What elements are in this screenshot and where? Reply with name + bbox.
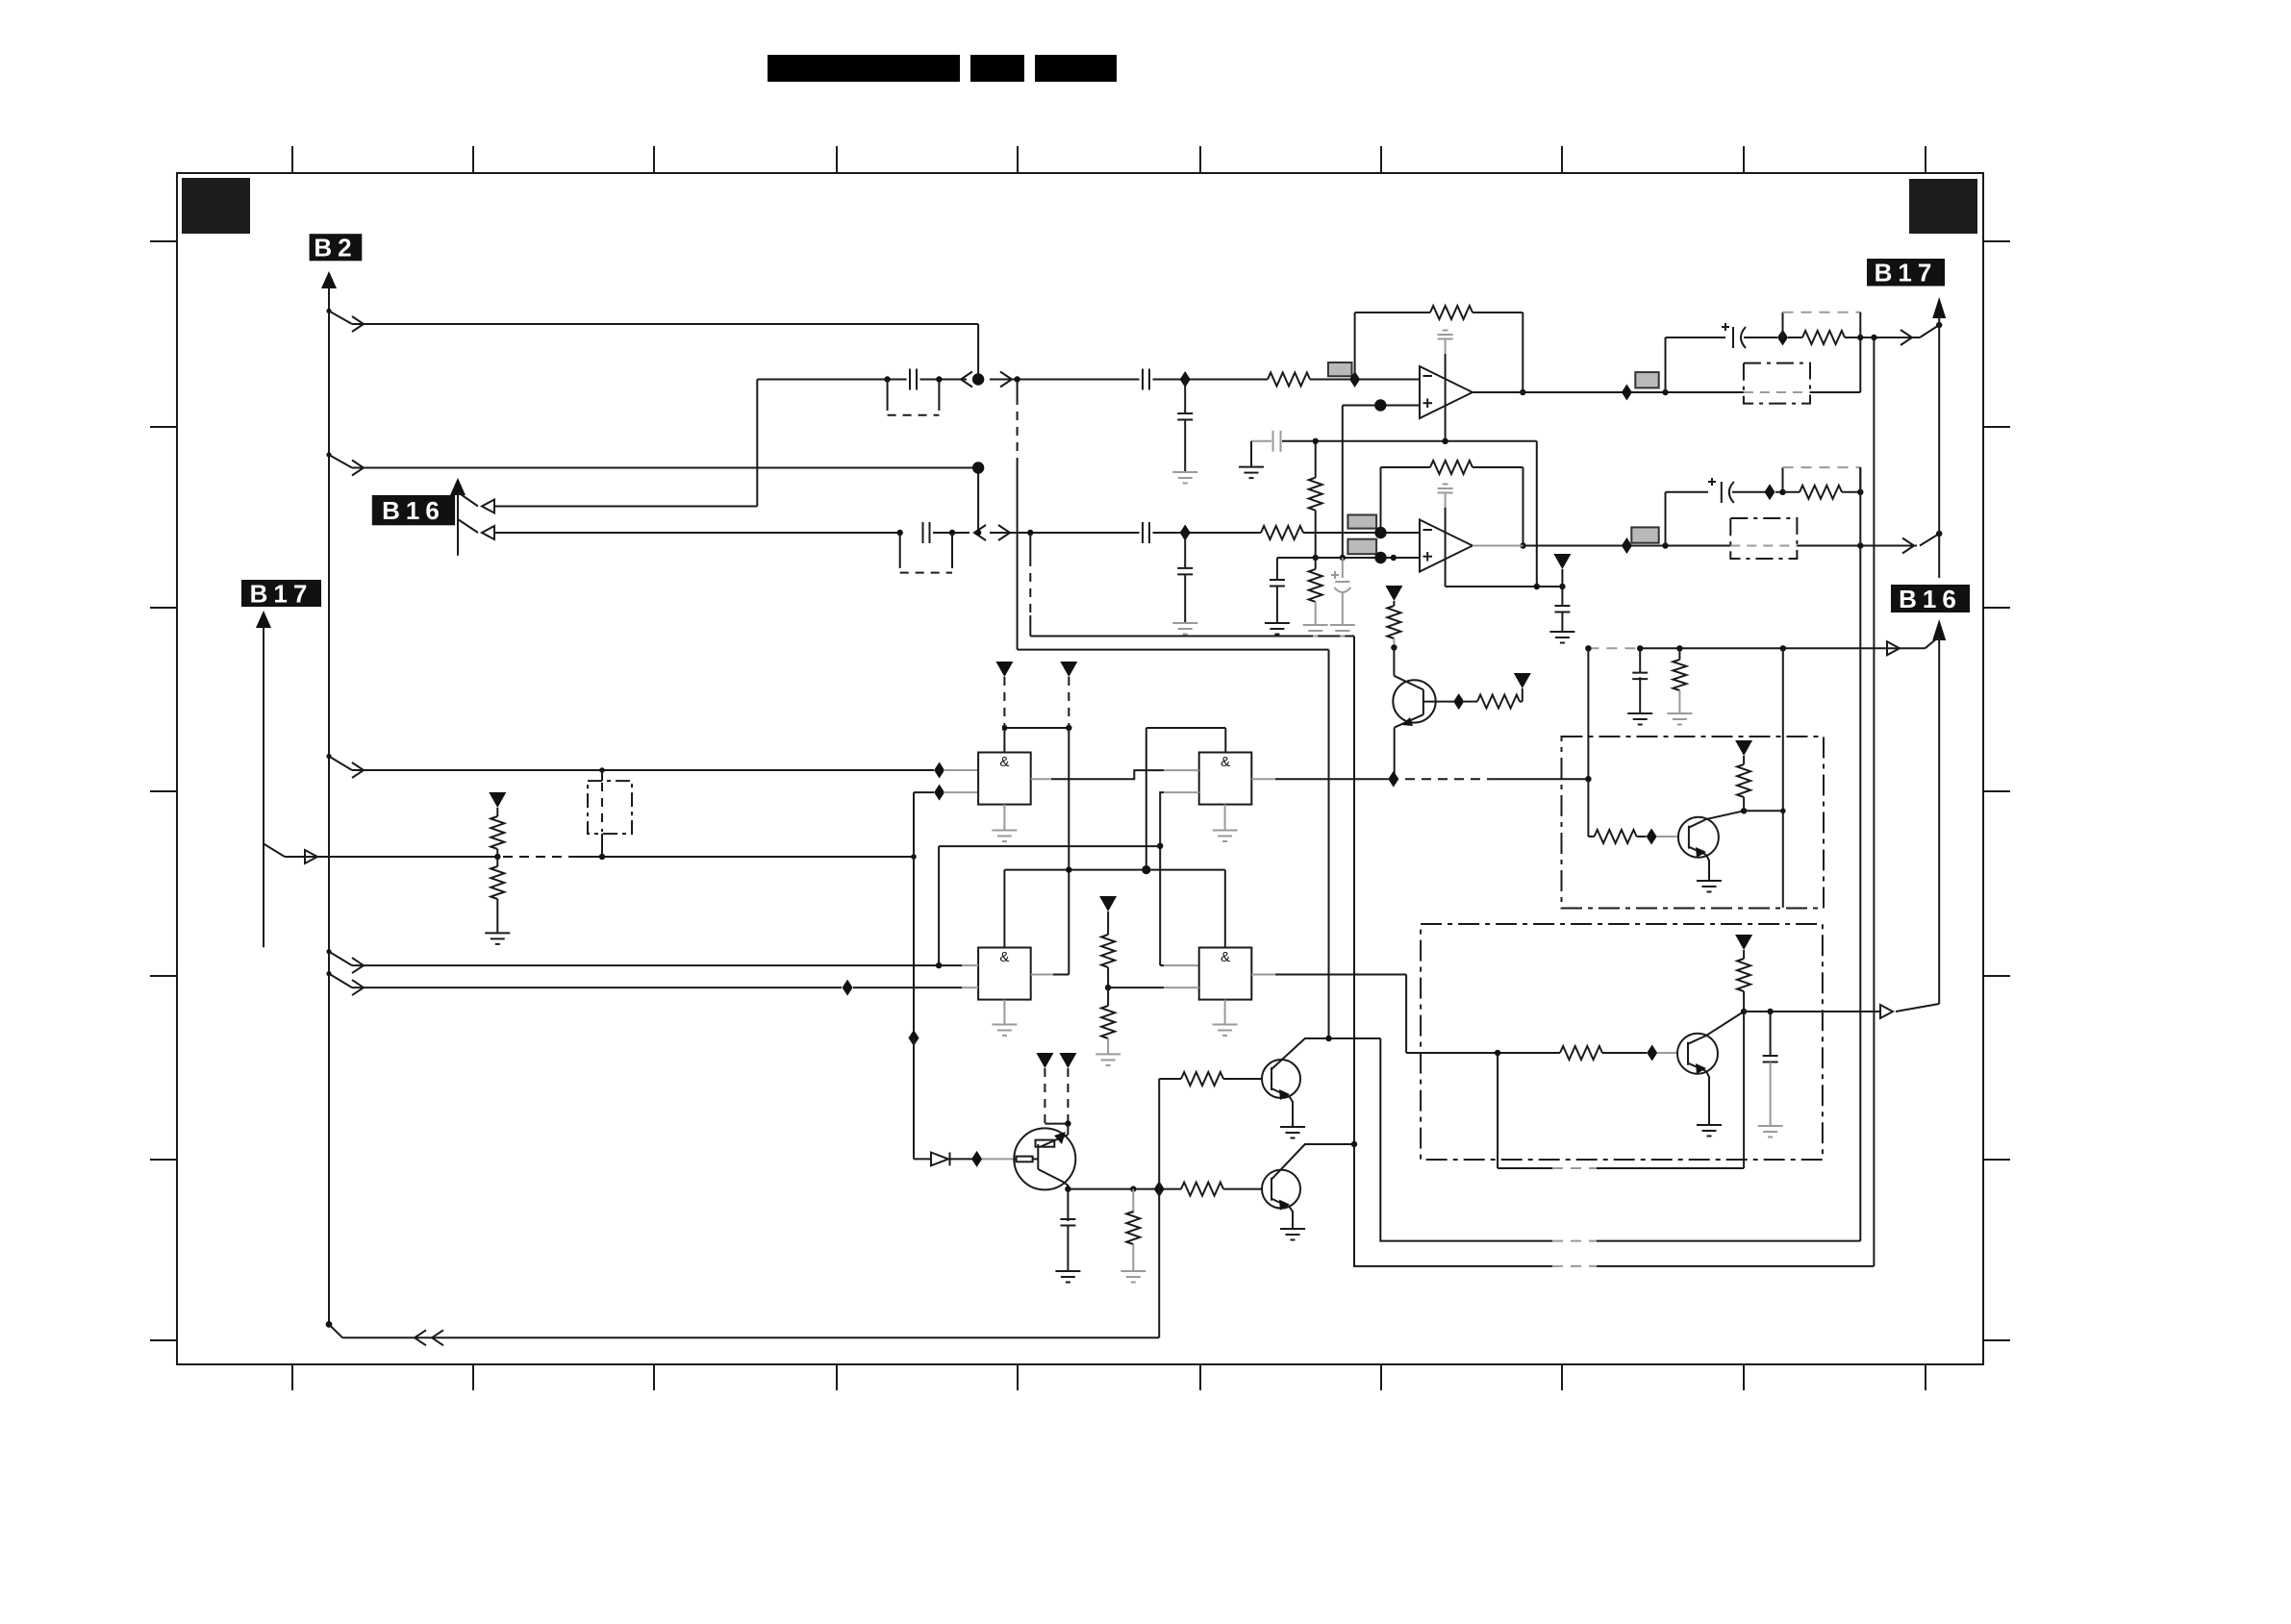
wire out2 a xyxy=(1473,545,1730,547)
ground C13 xyxy=(1627,713,1652,725)
net label B2 xyxy=(310,234,363,262)
wire B17-left wire b xyxy=(577,854,917,860)
transistor Q6 xyxy=(1262,1170,1300,1209)
wire chain2 tap vertical xyxy=(1029,533,1031,637)
node dot out1 tap xyxy=(1662,389,1668,395)
resistor R3 feedback U1 xyxy=(1430,306,1473,319)
wire Q3 fb dashes xyxy=(1552,1167,1597,1169)
capacitor C1 bypass dashed xyxy=(888,380,940,415)
capacitor C4 series xyxy=(923,522,930,543)
wire supply col xyxy=(1561,569,1563,606)
wire Q3 base row a xyxy=(1406,1050,1560,1056)
wire B2 branch 1 xyxy=(352,324,978,380)
wire chain1 e xyxy=(1310,379,1420,381)
component dash-dot box M2 xyxy=(1730,518,1797,559)
capacitor C2 series xyxy=(1143,369,1149,390)
wire stub from dashed box xyxy=(601,834,603,857)
wire Q1 base c xyxy=(1520,688,1523,702)
svg-text:B16: B16 xyxy=(382,496,445,525)
capacitor C4 bypass dashed xyxy=(900,533,952,573)
wire Q5 emitter xyxy=(1271,1088,1293,1127)
wire Q3 base stub xyxy=(1657,1052,1677,1054)
node dot Q1 col xyxy=(1391,644,1397,650)
svg-text:B16: B16 xyxy=(1899,585,1962,613)
wire B2 branch 4 to gate C xyxy=(352,964,962,966)
resistor R5 divider upper xyxy=(1309,441,1322,558)
wire RC1 a xyxy=(1788,337,1802,338)
wire Q4 emitter row xyxy=(1068,1186,1181,1191)
wire out2 kink to B17 bus xyxy=(1920,531,1942,546)
ground C15 xyxy=(1758,1126,1783,1137)
net label B16 left xyxy=(372,495,455,525)
resistor R8 RC2 xyxy=(1800,486,1842,499)
wire Q2 base feed xyxy=(1588,779,1594,837)
wire Q4 collector node xyxy=(1045,1120,1070,1135)
wire rail-763 A xyxy=(1002,725,1072,731)
node dot Q2 collector xyxy=(1741,808,1747,813)
node diamond Q5Q6 node xyxy=(1154,1181,1165,1197)
gate C ground xyxy=(992,1000,1017,1036)
ground R6 xyxy=(1303,625,1328,637)
wire U1 plus drop xyxy=(1342,406,1344,559)
wire B16 wire1 xyxy=(494,506,757,508)
top ruler ticks xyxy=(292,146,1926,173)
wire Q3 collector xyxy=(1688,1012,1744,1044)
wire Q6 emitter xyxy=(1271,1199,1293,1229)
component dashed bypass RC1 xyxy=(1783,312,1861,337)
capacitor C10 shunt xyxy=(1554,606,1570,632)
gate B top pin xyxy=(1224,728,1226,753)
wire B2 branch 5 to gate C xyxy=(352,987,842,988)
wire rail-763 B xyxy=(1142,728,1225,874)
node dot out2 tap xyxy=(1662,542,1668,548)
wire wire5 cont xyxy=(853,987,962,988)
gate D ground xyxy=(1213,1000,1238,1036)
op-amp U1 xyxy=(1420,366,1473,418)
title bar block 1 xyxy=(768,55,960,82)
wire rail-904 to gate C xyxy=(1003,870,1005,948)
wire B17-right bus xyxy=(1938,316,1940,578)
wire U1 plus row xyxy=(1343,399,1420,411)
node dot chain2 a xyxy=(897,530,903,536)
wire Q3 base b xyxy=(1602,1052,1647,1054)
node diamond gate A in2 xyxy=(934,785,944,801)
wire Q5 base b xyxy=(1223,1078,1262,1080)
power arrow divider xyxy=(1099,896,1117,912)
capacitor C15 shunt xyxy=(1763,1012,1778,1126)
wire line2 drop xyxy=(1353,637,1355,1145)
wire RC1 b xyxy=(1845,330,1920,345)
wire B2 branch 3 kink xyxy=(326,754,364,778)
resistor R16 Q5 base xyxy=(1181,1072,1223,1086)
wire B17net drop b xyxy=(914,1038,931,1160)
power arrow dashed Q4-1 xyxy=(1036,1053,1053,1124)
wire riser to chain1 xyxy=(756,380,758,507)
wire RC2 riser xyxy=(1666,492,1709,546)
svg-text:&: & xyxy=(999,754,1009,770)
ground C6 xyxy=(1172,623,1197,635)
black square top-right xyxy=(1909,179,1977,234)
power arrow dashed Q4-2 xyxy=(1059,1053,1076,1124)
wire out2 inside M2 xyxy=(1730,545,1797,547)
net label B17 left xyxy=(241,579,321,608)
node diamond op1 input xyxy=(1349,371,1360,387)
wire Q5 collector xyxy=(1271,1036,1380,1069)
resistor R19 Q3 base xyxy=(1560,1046,1602,1060)
wire out1 b xyxy=(1810,337,1860,392)
wire B2 branch 3 to gate A xyxy=(352,769,934,771)
ground C8 xyxy=(1330,625,1355,637)
wire vertical V2 xyxy=(1873,337,1875,1266)
component grey box J5 xyxy=(1631,527,1658,542)
resistor R9 xyxy=(1673,648,1686,713)
wire chain1 a xyxy=(757,376,906,382)
ground rail-458 xyxy=(1239,467,1264,479)
capacitor C12 electrolytic xyxy=(1708,478,1765,503)
wire B17-left wire dashed xyxy=(503,856,577,858)
resistor R-col lower xyxy=(491,857,504,933)
wire Q1 emitter xyxy=(1395,714,1423,779)
wire gate B out xyxy=(1251,776,1591,782)
logic gate C xyxy=(978,948,1031,1000)
wire B2 bottom kink xyxy=(326,1321,343,1337)
wire Q2 emitter xyxy=(1689,847,1709,881)
ground R-col xyxy=(485,933,510,944)
capacitor C1 series xyxy=(910,369,917,390)
wire vertical V1 xyxy=(1859,467,1861,1241)
node junction wire2 dot xyxy=(972,462,984,473)
resistor R7 RC1 xyxy=(1802,331,1845,344)
svg-text:&: & xyxy=(1221,949,1230,965)
wire Q3 fb drop xyxy=(1498,1053,1552,1168)
resistor R11 Q1 base xyxy=(1477,695,1520,709)
wire net-880 xyxy=(936,846,1160,968)
node B16-right arrow xyxy=(1932,619,1946,640)
svg-text:B17: B17 xyxy=(250,579,314,608)
wire rail-904 to gate D xyxy=(1224,870,1226,948)
wire out2 b xyxy=(1797,538,1917,554)
wire Q5 route down xyxy=(1380,1038,1552,1241)
wire gate A out to gate B xyxy=(1031,770,1199,779)
wire B2 bus vertical xyxy=(328,287,330,1324)
wire chain2 e xyxy=(1303,532,1420,534)
node B16-left arrow xyxy=(450,478,466,495)
node B17-right arrow xyxy=(1932,297,1946,318)
ground Q3 emitter xyxy=(1697,1125,1722,1137)
ground C7 xyxy=(1265,623,1290,635)
ground C10 xyxy=(1549,632,1574,643)
wire rail-458 grey xyxy=(1251,440,1271,442)
wire B16 wire2 kink xyxy=(458,519,494,539)
wire line2 horizontal xyxy=(1030,636,1354,637)
wire B17-left stub xyxy=(263,626,264,947)
ground R14 xyxy=(1120,1271,1145,1283)
transistor Q1 xyxy=(1393,680,1435,722)
wire rail-458 gnd stem xyxy=(1250,441,1252,467)
ground Q2 emitter xyxy=(1697,881,1722,892)
wire line1 horizontal xyxy=(1018,649,1329,651)
wire U1 fb left xyxy=(1354,312,1356,380)
node dot U2 out xyxy=(1520,542,1525,548)
wire B2 branch 4 kink xyxy=(326,949,364,973)
component grey box J2 xyxy=(1347,515,1376,529)
svg-text:B17: B17 xyxy=(1875,259,1938,287)
component grey box J1 xyxy=(1328,362,1352,376)
capacitor C7 shunt xyxy=(1270,558,1285,623)
power arrow U2 supply xyxy=(1553,554,1571,569)
wire stub gate A in2 xyxy=(944,791,978,793)
wire Q6 route dashes xyxy=(1552,1265,1597,1267)
wire B16 wire2 (chain2 left) xyxy=(494,532,900,534)
wire Q2 collector xyxy=(1689,811,1744,827)
wire rail-610 xyxy=(1446,584,1566,589)
wire B2 branch 5 kink xyxy=(326,971,364,995)
wire Q5 route dashes xyxy=(1552,1240,1597,1242)
node diamond Q4 base xyxy=(971,1151,982,1167)
wire B17-left wire a xyxy=(285,856,497,858)
wire gate D in1 xyxy=(1160,964,1199,966)
wire B2 branch 2 xyxy=(352,468,978,534)
node diamond gate B out xyxy=(1388,771,1398,787)
resistor R17 Q2 base xyxy=(1595,830,1637,843)
bottom ruler ticks xyxy=(292,1364,1926,1390)
resistor R6 divider lower xyxy=(1309,558,1322,625)
resistor R1 chain1 xyxy=(1268,373,1310,387)
left ruler ticks xyxy=(150,241,177,1340)
wire line-674 xyxy=(1637,641,1926,655)
wire RC1 kink to B17 bus xyxy=(1920,322,1942,337)
wire out1 inside M1 xyxy=(1744,391,1810,393)
wire B17-left branch kink xyxy=(264,844,317,864)
wire Q2 base stub xyxy=(1657,836,1678,837)
wire bottom drop xyxy=(1158,1189,1160,1338)
wire line-674 kink to B16 bus xyxy=(1926,637,1940,648)
wire RC2 b xyxy=(1842,489,1864,495)
wire Q6 collector xyxy=(1271,1141,1357,1180)
wire Q1 collector xyxy=(1394,648,1423,690)
wire out1 a xyxy=(1473,391,1744,393)
capacitor C3 shunt xyxy=(1177,380,1193,473)
svg-text:&: & xyxy=(999,949,1009,965)
transistor Q5 xyxy=(1262,1060,1300,1098)
gate C in stubs xyxy=(962,965,978,987)
title bar block 2 xyxy=(970,55,1024,82)
wire B2 branch 2 kink xyxy=(326,452,364,475)
resistor R20 Q3 collector xyxy=(1737,950,1750,1012)
wire rail-458 drop xyxy=(1536,441,1538,587)
capacitor C8 electrolytic xyxy=(1331,558,1350,625)
node junction wire2-chain1 xyxy=(972,373,984,385)
wire cross-couple drop xyxy=(1068,728,1070,975)
wire Q3 emitter xyxy=(1688,1063,1709,1125)
net label B17 right xyxy=(1867,259,1945,287)
wire RC1 riser xyxy=(1666,337,1726,392)
component dashed bypass RC2 xyxy=(1783,467,1861,492)
node diamond gate A in1 xyxy=(934,762,944,779)
wire divider to gate D in2 xyxy=(1108,987,1199,988)
op-amp U2 xyxy=(1420,520,1473,572)
ground R13 xyxy=(1095,1054,1120,1065)
wire RC2 a xyxy=(1775,489,1800,495)
node B17-left arrow xyxy=(256,611,271,628)
wire line1 drop xyxy=(1328,650,1330,1038)
node dot U1 out xyxy=(1520,389,1525,395)
ground Q5 emitter xyxy=(1280,1127,1305,1138)
power arrow dashed A2 xyxy=(1060,662,1077,728)
wire U1 fb top a xyxy=(1355,312,1430,313)
node diamond wire5 xyxy=(843,980,853,996)
component dash-dot box B1 xyxy=(1562,737,1825,909)
capacitor C11 electrolytic xyxy=(1722,323,1777,348)
wire U2 fb top b xyxy=(1473,467,1523,546)
resistor R14 xyxy=(1126,1189,1140,1271)
wire drop to Q1 emitter net xyxy=(1587,648,1589,779)
svg-text:B2: B2 xyxy=(314,234,357,262)
wire Q5 base riser xyxy=(1158,1079,1160,1189)
node dot divider xyxy=(1105,985,1111,990)
gate B ground xyxy=(1213,805,1238,841)
logic gate B xyxy=(1199,753,1252,805)
node dot op2 input xyxy=(1374,527,1386,538)
capacitor C13 shunt xyxy=(1632,648,1648,713)
wire B16 wire1 kink xyxy=(458,492,494,513)
node B2 bus arrow xyxy=(321,271,337,288)
node diamond out2 xyxy=(1622,537,1632,554)
resistor R12 divider upper xyxy=(1101,912,1115,987)
op-amp U2 power pin xyxy=(1438,485,1453,587)
node diamond chain1 xyxy=(1180,371,1191,387)
wire chain1 d xyxy=(1153,379,1269,381)
node diamond Q1 base xyxy=(1453,693,1464,710)
component dash-dot box M1 xyxy=(1744,363,1810,404)
node diamond RC2 xyxy=(1765,484,1775,500)
node diamond RC1 xyxy=(1777,330,1788,346)
gate A top pin xyxy=(1003,728,1005,753)
component dashed box X1 xyxy=(588,781,632,834)
wire gate D out xyxy=(1251,975,1406,1054)
node diamond B17net xyxy=(909,1030,919,1046)
ground R9 xyxy=(1667,713,1692,725)
wire U2 fb left xyxy=(1380,467,1382,533)
wire Q1 base b xyxy=(1464,701,1477,703)
resistor R18 Q2 collector xyxy=(1737,756,1750,811)
ground Q6 emitter xyxy=(1280,1229,1305,1240)
resistor R10 Q1 collector xyxy=(1387,601,1400,648)
node diamond Q3 base xyxy=(1647,1045,1657,1062)
wire stub gate A in1 xyxy=(944,769,978,771)
wire to Q6 base xyxy=(1223,1188,1262,1190)
capacitor C6 shunt xyxy=(1177,533,1193,623)
resistor R-col upper xyxy=(491,808,504,857)
logic gate D xyxy=(1199,948,1252,1000)
wire Q2 base a xyxy=(1637,836,1647,837)
transistor Q4 xyxy=(1014,1128,1075,1189)
wire Q3 out row xyxy=(1744,1005,1893,1018)
net label B16 right xyxy=(1891,585,1970,613)
wire chain1 tap vertical xyxy=(1017,380,1019,650)
wire Q5 route b xyxy=(1597,1240,1860,1242)
wire U1 fb top b xyxy=(1473,312,1523,392)
wire riser to gate A in2 xyxy=(914,792,934,857)
power arrow Q3 supply xyxy=(1735,935,1752,950)
transistor Q3 xyxy=(1677,1034,1718,1074)
title bar block 3 xyxy=(1035,55,1117,82)
power arrow Q2 supply xyxy=(1735,740,1752,756)
right ruler ticks xyxy=(1983,241,2010,1340)
power arrow dashed A1 xyxy=(995,662,1013,728)
component grey box J3 xyxy=(1347,539,1376,555)
wire B16-left stub xyxy=(457,494,459,556)
wire line-674 dashed xyxy=(1585,645,1640,651)
wire Q5 base xyxy=(1159,1078,1181,1080)
wire Q6 route down xyxy=(1354,1144,1552,1266)
resistor R15 Q6 base xyxy=(1181,1183,1223,1196)
wire B16-right bus xyxy=(1938,638,1940,1004)
component dash-dot box B2x xyxy=(1421,924,1823,1160)
node dot Q4 emitter xyxy=(1065,1186,1070,1191)
capacitor C5 series xyxy=(1143,522,1149,543)
op-amp U1 power pin xyxy=(1438,331,1453,441)
resistor R13 divider lower xyxy=(1101,987,1115,1054)
black square top-left xyxy=(182,178,250,234)
logic gate A xyxy=(978,753,1031,805)
wire gate B in2 riser xyxy=(1157,792,1199,965)
gate A ground xyxy=(992,805,1017,841)
wire gate C out xyxy=(1031,974,1070,976)
wire Q4 base stub xyxy=(982,1158,1014,1160)
capacitor C9 series xyxy=(1273,431,1281,452)
node dot Q3 collector xyxy=(1741,1009,1747,1014)
wire B17net drop xyxy=(913,857,915,1038)
wire Q6 route b xyxy=(1597,1265,1874,1267)
wire stub to dashed box xyxy=(599,767,605,781)
wire chain2 b xyxy=(933,525,986,540)
wire Q4 emitter xyxy=(1038,1169,1068,1189)
wire Q1 base xyxy=(1423,701,1454,703)
wire Q2 collector jog xyxy=(1744,648,1786,908)
border frame xyxy=(177,173,1983,1364)
node diamond out1 xyxy=(1622,385,1632,401)
power arrow above R-col xyxy=(489,792,506,808)
node diamond chain2 xyxy=(1180,525,1191,541)
wire chain2 d xyxy=(1153,532,1262,534)
wire U2 plus row xyxy=(1277,552,1420,563)
wire chain1 c xyxy=(990,372,1140,387)
wire diode to Q4 xyxy=(950,1158,972,1160)
wire Q3 fb b xyxy=(1597,1012,1744,1168)
power arrow Q1 collector supply xyxy=(1385,586,1402,601)
wire U2 fb top a xyxy=(1381,466,1431,468)
resistor R4 feedback U2 xyxy=(1430,461,1473,474)
ground C14 xyxy=(1055,1271,1080,1283)
wire chain2 c xyxy=(975,525,1140,540)
wire B2 bottom return xyxy=(342,1330,1159,1345)
transistor Q2 xyxy=(1678,817,1719,858)
wire chain1 b xyxy=(920,372,973,387)
ground C3 xyxy=(1172,472,1197,484)
node diamond Q2 base xyxy=(1647,829,1657,845)
resistor R2 chain2 xyxy=(1261,526,1303,539)
wire rail-458 xyxy=(1282,438,1537,444)
capacitor C14 shunt xyxy=(1060,1189,1075,1271)
power arrow Q1 base supply xyxy=(1514,673,1531,688)
node dot resistor col xyxy=(494,854,500,860)
wire Q3 out kink to B16 bus xyxy=(1896,1004,1939,1012)
wire B2 branch 1 kink xyxy=(326,309,364,332)
diode D1 xyxy=(931,1153,950,1166)
component grey box J4 xyxy=(1635,372,1658,387)
wire rail-904 xyxy=(1004,866,1224,872)
